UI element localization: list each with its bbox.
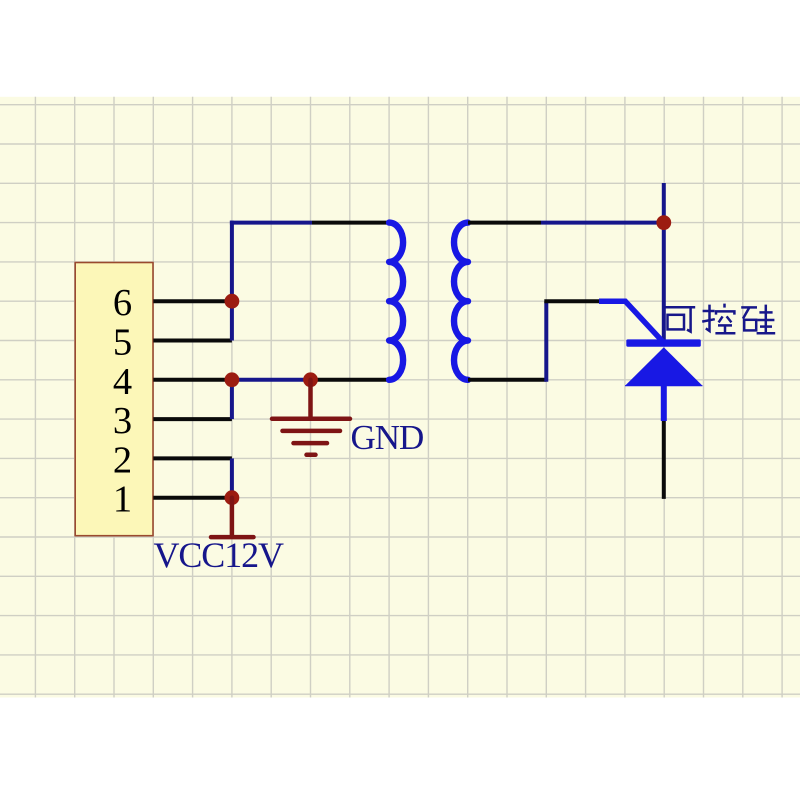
component label: 可控硅 (thyristor) drawn strokes	[665, 304, 776, 334]
power symbol VCC12V bar	[211, 498, 254, 537]
svg-text:GND: GND	[351, 418, 424, 457]
svg-text:1: 1	[113, 479, 132, 521]
sheet grid	[0, 97, 800, 698]
pin number 3	[113, 400, 132, 442]
pin number 1	[113, 479, 132, 521]
wire: vertical net pin6-pin5 rising to top rail	[230, 221, 234, 341]
connector J1 body	[75, 263, 153, 536]
wire pin 4	[153, 378, 232, 382]
wire: top rail black segment to transformer primary	[312, 221, 389, 225]
svg-text:6: 6	[113, 282, 132, 324]
glyph 控 eight strokes	[719, 316, 723, 322]
transformer T1 secondary winding	[454, 223, 468, 380]
glyph 可	[665, 306, 696, 309]
junction dot pin4 net	[225, 372, 240, 387]
pin number 6	[113, 282, 132, 324]
glyph 控 gong	[718, 324, 732, 327]
wire: black segment GND tap to transformer primary bottom	[311, 378, 390, 382]
wire: anode stub vertical	[662, 183, 666, 340]
svg-text:2: 2	[113, 439, 132, 481]
thyristor V1 cathode bar	[626, 339, 701, 346]
wire: gate riser navy vertical	[544, 301, 548, 382]
junction dot pin1 net	[225, 490, 240, 505]
wire: secondary top black segment	[468, 221, 541, 225]
glyph 硅 stone radical	[741, 306, 757, 309]
wire pin 3	[153, 417, 232, 421]
wire: bottom black lead from thyristor	[662, 421, 666, 499]
pin number 5	[113, 322, 132, 364]
net label GND	[351, 418, 424, 457]
wire: vertical net pin2-pin1	[230, 458, 234, 497]
glyph 控 roof	[723, 304, 726, 308]
svg-text:4: 4	[113, 361, 132, 403]
wire pin 6	[153, 299, 232, 303]
svg-text:5: 5	[113, 322, 132, 364]
wire: top rail navy segment	[230, 221, 312, 225]
wire pin 1	[153, 496, 232, 500]
glyph 硅 double earth	[765, 305, 768, 334]
transformer T1 primary winding	[389, 223, 403, 380]
wire: gate horizontal black segment	[544, 299, 599, 303]
thyristor V1 anode triangle	[625, 347, 703, 386]
junction dot GND tap	[303, 372, 318, 387]
wire: secondary top navy segment to anode node	[541, 221, 664, 225]
power net label VCC12V	[154, 535, 285, 575]
wire pin 5	[153, 339, 232, 343]
pin number 4	[113, 361, 132, 403]
wire: vertical net pin4-pin3	[230, 380, 234, 419]
junction dot pin6 net	[225, 294, 240, 309]
svg-text:VCC12V: VCC12V	[154, 535, 285, 575]
ground symbol	[272, 380, 350, 455]
pin number 2	[113, 439, 132, 481]
thyristor V1 bottom lead blue	[661, 385, 667, 421]
thyristor V1 gate lead	[599, 301, 664, 343]
schematic sheet background	[0, 97, 800, 698]
svg-text:3: 3	[113, 400, 132, 442]
wire pin 2	[153, 456, 232, 460]
glyph 控 hand radical	[706, 305, 710, 331]
junction dot anode node	[656, 215, 671, 230]
wire: navy segment pin4 to GND tap	[232, 378, 311, 382]
wire: secondary bottom black segment	[468, 378, 546, 382]
